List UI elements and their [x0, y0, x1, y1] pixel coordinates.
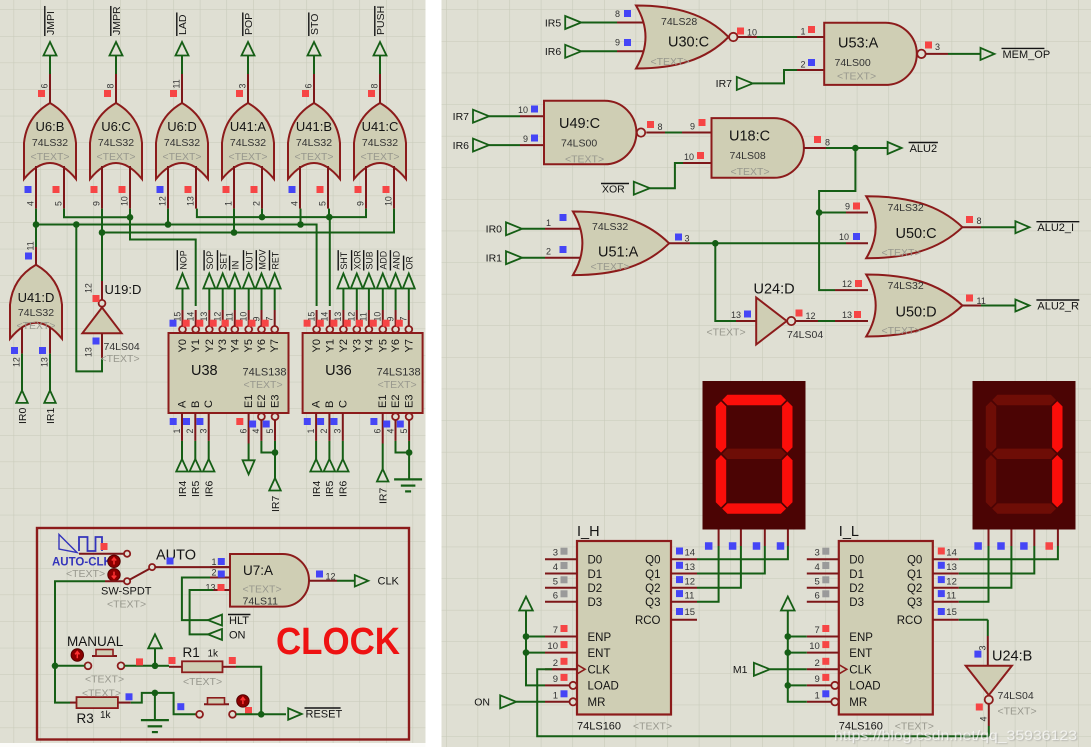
clock sub-circuit box [37, 528, 409, 740]
output terminal SUB [363, 250, 375, 310]
svg-text:HLT: HLT [229, 615, 249, 627]
wire manual button row [52, 658, 169, 669]
svg-text:4: 4 [251, 429, 261, 434]
ground [394, 479, 422, 491]
counter I_H 74LS160 [545, 524, 697, 733]
svg-text:U53:A: U53:A [838, 36, 879, 52]
svg-text:AUTO-CLK: AUTO-CLK [52, 557, 113, 569]
ground (clock) [141, 720, 169, 732]
output terminal ALU2_R [1015, 300, 1079, 313]
svg-text:74LS32: 74LS32 [888, 280, 924, 292]
wire IR6 to U49:C pin9 [489, 134, 546, 145]
wire IR0 to U51:A pin1 [522, 214, 586, 229]
svg-text:ADD: ADD [379, 251, 389, 270]
svg-text:6: 6 [815, 590, 820, 601]
svg-text:74LS32: 74LS32 [592, 221, 628, 233]
svg-text:<TEXT>: <TEXT> [244, 379, 283, 391]
svg-text:U41:C: U41:C [362, 119, 399, 134]
svg-text:CLK: CLK [588, 665, 611, 677]
input terminal IR5 [190, 441, 203, 497]
svg-text:Q0: Q0 [907, 555, 922, 567]
svg-text:IR7: IR7 [270, 496, 282, 513]
or-gate U6:B 74LS32 [24, 74, 76, 209]
svg-text:1: 1 [306, 429, 316, 434]
svg-text:4: 4 [553, 562, 558, 573]
input terminal IR5 [545, 16, 581, 29]
input terminal IR4 [176, 441, 189, 497]
wire U51:A out branch to U24:D input [715, 243, 756, 321]
svg-text:OR: OR [405, 256, 415, 269]
push button (reset) [177, 695, 252, 718]
svg-text:74LS32: 74LS32 [98, 137, 134, 149]
svg-text:<TEXT>: <TEXT> [882, 325, 921, 337]
terminal down-arrow at U38.E1 [243, 444, 255, 475]
output terminal JMPI [44, 6, 57, 74]
svg-text:Y4: Y4 [363, 339, 375, 352]
and-gate U18:C 74LS08 [712, 118, 831, 178]
svg-text:D1: D1 [849, 569, 864, 581]
watermark [834, 728, 1077, 743]
wire IR6 to U30:C pin9 [581, 38, 649, 52]
svg-text:C: C [203, 400, 215, 408]
svg-text:IR5: IR5 [545, 17, 562, 29]
svg-text:MOV: MOV [257, 249, 267, 269]
svg-text:74LS32: 74LS32 [230, 137, 266, 149]
svg-text:1: 1 [815, 690, 820, 701]
input terminal IR1 [486, 251, 522, 264]
svg-text:74LS32: 74LS32 [296, 137, 332, 149]
svg-text:<TEXT>: <TEXT> [731, 166, 770, 178]
output terminal ALU2 [888, 142, 938, 155]
svg-text:9: 9 [553, 674, 558, 685]
svg-text:11: 11 [26, 241, 36, 250]
wire U36 E1 to IR7 [382, 444, 384, 470]
svg-text:<TEXT>: <TEXT> [565, 154, 604, 166]
and-gate U7:A 74LS11 [205, 554, 337, 608]
svg-text:SHT: SHT [339, 251, 349, 269]
svg-text:1: 1 [800, 27, 805, 37]
wire U51:A out to U50:C pin10 [690, 232, 868, 247]
svg-text:74LS138: 74LS138 [377, 367, 421, 379]
wire IR7 to U53:A pin2 [753, 59, 824, 83]
svg-text:2: 2 [252, 201, 262, 206]
svg-text:IR7: IR7 [378, 488, 390, 505]
resistor R3 1k [70, 688, 133, 727]
svg-text:U24:D: U24:D [754, 282, 795, 298]
svg-text:74LS32: 74LS32 [164, 137, 200, 149]
input terminal ON (clock) [208, 629, 246, 642]
svg-text:74LS08: 74LS08 [730, 150, 766, 162]
inverter U24:D 74LS04 [707, 282, 824, 345]
svg-text:10: 10 [809, 641, 820, 652]
input terminal IR6 [453, 139, 489, 152]
input terminal IR0 [486, 222, 522, 235]
nor-gate U30:C 74LS28 [636, 6, 757, 69]
svg-text:B: B [324, 401, 336, 408]
svg-text:8: 8 [615, 9, 620, 19]
svg-text:74LS138: 74LS138 [243, 367, 287, 379]
input terminal IR6 [545, 45, 581, 58]
svg-text:8: 8 [106, 84, 116, 89]
nand-gate U53:A 74LS00 [824, 23, 948, 85]
or-gate U41:A 74LS32 [222, 74, 274, 209]
svg-text:Y7: Y7 [403, 339, 415, 352]
svg-text:ENT: ENT [588, 648, 611, 660]
wire U7:A output to CLK [337, 580, 355, 582]
output terminal MOV [256, 249, 268, 310]
svg-text:74LS11: 74LS11 [243, 596, 279, 608]
svg-text:11: 11 [946, 590, 956, 601]
svg-text:https://blog.csdn.net/qq_35936: https://blog.csdn.net/qq_35936123 [834, 728, 1077, 743]
wire M1 to I_L CLK [770, 668, 807, 670]
or-gate U6:C 74LS32 [90, 74, 142, 209]
input terminal IR6 [337, 441, 350, 497]
svg-text:E3: E3 [404, 395, 416, 408]
svg-text:14: 14 [946, 548, 957, 559]
svg-text:<TEXT>: <TEXT> [378, 379, 417, 391]
svg-text:RCO: RCO [635, 615, 661, 627]
svg-text:11: 11 [172, 79, 182, 88]
output terminal CLK [355, 575, 400, 587]
output terminal IN [229, 256, 241, 310]
svg-text:U50:D: U50:D [896, 305, 937, 321]
svg-text:D3: D3 [588, 597, 603, 609]
svg-text:Y1: Y1 [324, 339, 336, 352]
svg-text:U6:C: U6:C [101, 119, 131, 134]
svg-text:74LS04: 74LS04 [104, 341, 140, 353]
svg-text:IN: IN [231, 261, 241, 270]
svg-text:RESET: RESET [306, 709, 343, 721]
svg-text:U24:B: U24:B [992, 649, 1032, 665]
svg-text:9: 9 [815, 674, 820, 685]
wire U49:C out to U18:C pin9 [665, 119, 714, 133]
svg-text:2: 2 [211, 568, 216, 578]
svg-text:E1: E1 [243, 395, 255, 408]
svg-text:3: 3 [935, 42, 940, 52]
resistor R1 1k [169, 645, 237, 688]
wire IR7 to U49:C pin10 [489, 105, 546, 116]
output terminal STO [308, 12, 321, 74]
svg-text:D2: D2 [588, 583, 603, 595]
svg-text:U50:C: U50:C [896, 226, 937, 242]
inverter U24:B 74LS04 [966, 649, 1037, 727]
svg-text:7: 7 [815, 625, 820, 636]
wire U50:C out to ALU2_I [981, 226, 1016, 228]
node AUTO label [156, 548, 196, 565]
wire ALU2 net from U18:C out [826, 145, 888, 152]
wire net L1b (U6:D.13 / U41:A.2 / U41:B.5 / U41:C.9 / U36.Y1) [197, 209, 366, 306]
svg-text:AUTO: AUTO [156, 548, 196, 564]
svg-text:D0: D0 [849, 555, 864, 567]
svg-text:I_H: I_H [577, 524, 600, 540]
wire net L3 (U6:C.9 / U19:D.out / U41:A.1 / U41:C.10) [99, 209, 394, 281]
svg-text:ALU2: ALU2 [910, 143, 938, 155]
output terminal SHT [337, 250, 349, 310]
wire U50:D out to ALU2_R [981, 305, 1016, 307]
svg-text:<TEXT>: <TEXT> [82, 688, 121, 700]
power arrow net (I_H) [519, 597, 545, 686]
input terminal HLT [208, 615, 250, 628]
svg-text:74LS00: 74LS00 [561, 138, 597, 150]
svg-text:D2: D2 [849, 583, 864, 595]
svg-text:4: 4 [26, 201, 36, 206]
svg-text:Y5: Y5 [243, 339, 255, 352]
svg-text:12: 12 [842, 279, 852, 289]
input terminal IR5 [324, 441, 337, 497]
svg-text:4: 4 [385, 429, 395, 434]
svg-text:U7:A: U7:A [243, 563, 273, 578]
svg-text:XOR: XOR [353, 250, 363, 269]
svg-text:13: 13 [842, 310, 852, 320]
svg-text:<TEXT>: <TEXT> [66, 568, 105, 580]
svg-text:2: 2 [319, 429, 329, 434]
svg-text:12: 12 [685, 576, 696, 587]
svg-text:MR: MR [588, 697, 606, 709]
svg-text:<TEXT>: <TEXT> [591, 261, 630, 273]
wire I_H Q0-Q3 to display [697, 546, 788, 602]
input terminal ON [474, 695, 516, 708]
svg-text:E3: E3 [270, 395, 282, 408]
svg-text:U38: U38 [191, 363, 218, 379]
svg-text:D3: D3 [849, 597, 864, 609]
svg-text:10: 10 [384, 196, 394, 206]
svg-text:E1: E1 [377, 395, 389, 408]
svg-text:5: 5 [399, 429, 409, 434]
svg-text:Y4: Y4 [229, 339, 241, 352]
svg-text:IR0: IR0 [486, 224, 503, 236]
wire IR5 to U30:C pin8 [581, 9, 649, 23]
svg-text:Q1: Q1 [645, 569, 660, 581]
input terminal IR7 (U36) [377, 469, 390, 504]
wire net L1a (U6:B.5 / U6:C.10 / U38.Y1) [64, 209, 196, 306]
svg-text:10: 10 [839, 232, 849, 242]
input terminal IR7 [453, 110, 489, 123]
svg-text:D1: D1 [588, 569, 603, 581]
svg-text:2: 2 [800, 60, 805, 70]
svg-text:<TEXT>: <TEXT> [651, 56, 690, 68]
svg-text:Y6: Y6 [390, 339, 402, 352]
svg-text:Q2: Q2 [907, 583, 922, 595]
output terminal OR [403, 256, 415, 310]
wire U18 out branch to U50:C.9 and U50:D.12 [816, 148, 868, 290]
svg-text:74LS32: 74LS32 [32, 137, 68, 149]
svg-text:<TEXT>: <TEXT> [30, 151, 69, 163]
svg-text:3: 3 [553, 548, 558, 559]
input terminal IR7 (U38) [269, 478, 282, 512]
svg-text:6: 6 [553, 590, 558, 601]
svg-text:RCO: RCO [897, 615, 923, 627]
wire AUTO net to U7:A pin1 [155, 566, 230, 568]
svg-text:ALU2_I: ALU2_I [1037, 222, 1074, 234]
svg-text:<TEXT>: <TEXT> [998, 706, 1037, 718]
svg-text:M1: M1 [733, 664, 748, 676]
svg-text:11: 11 [685, 590, 695, 601]
svg-text:<TEXT>: <TEXT> [183, 676, 222, 688]
push button MANUAL [67, 634, 124, 686]
svg-text:LOAD: LOAD [849, 681, 880, 693]
svg-text:<TEXT>: <TEXT> [85, 674, 124, 686]
svg-text:IR4: IR4 [311, 481, 323, 498]
svg-text:15: 15 [946, 607, 957, 618]
output terminal XOR [351, 250, 363, 310]
svg-text:6: 6 [373, 429, 383, 434]
input terminal IR0 [16, 354, 29, 424]
svg-text:14: 14 [685, 548, 696, 559]
wire U7:A pin13 to ON [190, 590, 213, 634]
svg-text:ALU2_R: ALU2_R [1037, 301, 1079, 313]
svg-text:R3: R3 [77, 711, 94, 726]
svg-text:JMPR: JMPR [111, 6, 123, 35]
svg-text:IR5: IR5 [324, 481, 336, 498]
svg-text:9: 9 [92, 201, 102, 206]
svg-text:12: 12 [806, 311, 816, 321]
svg-text:CLK: CLK [378, 576, 400, 588]
svg-text:Q3: Q3 [907, 597, 922, 609]
svg-text:IR6: IR6 [545, 46, 562, 58]
svg-text:1: 1 [172, 429, 182, 434]
svg-text:3: 3 [238, 84, 248, 89]
svg-text:74LS00: 74LS00 [835, 57, 871, 69]
svg-text:POP: POP [243, 13, 255, 35]
svg-text:8: 8 [370, 84, 380, 89]
svg-text:13: 13 [186, 196, 196, 206]
svg-text:STO: STO [309, 14, 321, 35]
input terminal XOR [601, 182, 650, 196]
wire I_H CLK from ripple clock [537, 669, 989, 736]
wire I_L Q0-Q3 to display [959, 546, 1058, 602]
wire XOR to U18:C pin10 [650, 152, 714, 188]
svg-text:U41:D: U41:D [18, 290, 55, 305]
svg-text:9: 9 [845, 202, 850, 212]
svg-text:SOP: SOP [205, 251, 215, 270]
svg-text:LAD: LAD [177, 14, 189, 35]
wire R3 net with ground junction [55, 666, 196, 720]
wire U30:C out to U53:A pin1 [757, 26, 824, 37]
input terminal M1 [733, 663, 770, 676]
output terminal JMPR [110, 6, 123, 74]
svg-text:3: 3 [199, 429, 209, 434]
svg-text:5: 5 [54, 201, 64, 206]
svg-text:U41:B: U41:B [296, 119, 332, 134]
wire U38 E2/E3 to IR7 [261, 441, 278, 478]
svg-text:1: 1 [553, 690, 558, 701]
or-gate U41:C 74LS32 [354, 74, 406, 209]
svg-text:10: 10 [747, 28, 757, 38]
svg-text:9: 9 [615, 38, 620, 48]
svg-text:E2: E2 [390, 395, 402, 408]
svg-text:B: B [190, 401, 202, 408]
svg-text:5: 5 [553, 576, 558, 587]
wire ON to I_H MR [516, 701, 545, 703]
svg-text:6: 6 [40, 84, 50, 89]
or-gate U50:D 74LS32 [866, 275, 986, 338]
svg-text:MR: MR [849, 697, 867, 709]
svg-text:74LS04: 74LS04 [787, 329, 823, 341]
input terminal IR1 [44, 354, 57, 424]
svg-text:13: 13 [946, 562, 957, 573]
svg-text:10: 10 [684, 152, 694, 162]
svg-text:74LS32: 74LS32 [18, 307, 54, 319]
or-gate U41:D 74LS32 [10, 241, 62, 367]
CLOCK title text [276, 621, 401, 663]
svg-text:Q3: Q3 [645, 597, 660, 609]
svg-text:ENP: ENP [588, 632, 612, 644]
wire U53:A out to MEM_OP [948, 53, 981, 55]
svg-text:10: 10 [547, 641, 558, 652]
decoder U36 74LS138 [303, 310, 423, 444]
power arrow (manual row) [148, 634, 162, 666]
svg-text:Y2: Y2 [204, 339, 216, 352]
svg-text:9: 9 [690, 122, 695, 132]
svg-text:<TEXT>: <TEXT> [228, 151, 267, 163]
7-segment display pins (right) [974, 530, 1058, 550]
svg-text:ON: ON [474, 697, 490, 709]
svg-text:<TEXT>: <TEXT> [633, 721, 672, 733]
svg-text:<TEXT>: <TEXT> [837, 71, 876, 83]
output terminal POP [242, 12, 255, 74]
output terminal ADD [377, 250, 389, 310]
wire U24:B out to bottom rail [988, 726, 990, 736]
svg-text:U49:C: U49:C [559, 116, 600, 132]
svg-text:MEM_OP: MEM_OP [1003, 49, 1051, 61]
svg-text:U41:A: U41:A [230, 119, 266, 134]
7-segment display pins (left) [705, 530, 788, 550]
svg-text:1k: 1k [100, 710, 112, 721]
svg-text:Y3: Y3 [217, 339, 229, 352]
svg-text:13: 13 [685, 562, 696, 573]
svg-text:A: A [311, 400, 323, 408]
svg-text:2: 2 [185, 429, 195, 434]
svg-text:1k: 1k [208, 649, 220, 660]
svg-text:4: 4 [978, 716, 988, 721]
output terminal OUT [243, 250, 255, 310]
svg-text:2: 2 [815, 658, 820, 669]
svg-text:IR4: IR4 [177, 481, 189, 498]
svg-text:SUB: SUB [365, 251, 375, 269]
svg-text:Q2: Q2 [645, 583, 660, 595]
wire IR1 to U51:A pin2 [522, 246, 586, 258]
svg-text:13: 13 [731, 310, 741, 320]
svg-text:5: 5 [265, 429, 275, 434]
svg-text:1: 1 [224, 201, 234, 206]
svg-text:<TEXT>: <TEXT> [707, 327, 746, 339]
svg-text:<TEXT>: <TEXT> [96, 151, 135, 163]
decoder U38 74LS138 [169, 310, 289, 444]
svg-text:U18:C: U18:C [729, 129, 770, 145]
svg-text:3: 3 [978, 645, 988, 650]
svg-text:D0: D0 [588, 555, 603, 567]
output terminal MEM_OP [981, 48, 1051, 61]
output terminal SOP [203, 250, 215, 310]
svg-text:IR6: IR6 [453, 140, 470, 152]
svg-text:9: 9 [356, 201, 366, 206]
svg-text:IR6: IR6 [338, 481, 350, 498]
svg-text:R1: R1 [183, 645, 200, 660]
switch SW-SPDT [101, 555, 155, 610]
svg-text:12: 12 [326, 571, 336, 581]
output terminal ALU2_I [1015, 221, 1079, 234]
svg-text:A: A [177, 400, 189, 408]
power arrow net (I_L) [781, 597, 807, 702]
svg-text:10: 10 [518, 105, 528, 115]
svg-text:U6:B: U6:B [36, 119, 65, 134]
svg-text:C: C [337, 400, 349, 408]
svg-text:ENT: ENT [849, 648, 872, 660]
svg-text:MANUAL: MANUAL [67, 634, 124, 649]
svg-text:SW-SPDT: SW-SPDT [101, 586, 152, 598]
svg-text:74LS04: 74LS04 [998, 690, 1034, 702]
svg-text:1: 1 [211, 557, 216, 567]
